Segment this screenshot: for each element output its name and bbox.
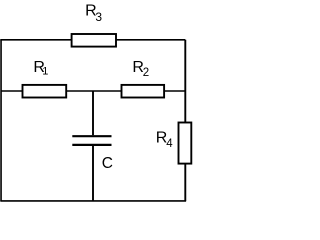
- svg-text:4: 4: [166, 138, 173, 150]
- wire middle horizontal: [1, 90, 185, 92]
- resistor R1: [23, 85, 67, 98]
- wire bottom horizontal: [0, 200, 186, 202]
- svg-text:1: 1: [42, 66, 48, 78]
- resistor R2: [122, 85, 165, 98]
- wire left vertical: [0, 40, 2, 201]
- svg-text:2: 2: [143, 67, 149, 79]
- wire top horizontal: [0, 39, 185, 41]
- wire center vertical upper segment: [92, 91, 94, 135]
- svg-text:3: 3: [95, 10, 102, 24]
- capacitor C bottom plate: [72, 144, 111, 146]
- resistor R4: [179, 123, 192, 164]
- capacitor C top plate: [72, 135, 111, 137]
- wire center vertical lower segment: [92, 146, 94, 201]
- svg-text:C: C: [102, 155, 113, 172]
- wire right vertical: [184, 40, 186, 201]
- resistor R3: [72, 34, 116, 47]
